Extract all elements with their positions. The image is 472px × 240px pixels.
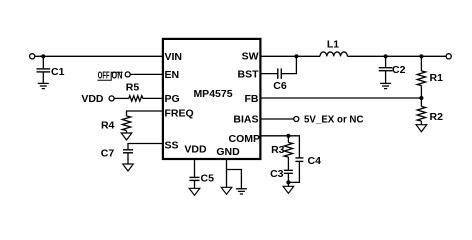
svg-text:R4: R4 <box>101 120 115 132</box>
svg-text:SW: SW <box>242 51 259 63</box>
svg-text:C7: C7 <box>101 148 115 160</box>
svg-text:R1: R1 <box>430 72 444 84</box>
svg-text:PG: PG <box>165 93 180 105</box>
svg-text:VDD: VDD <box>184 143 207 155</box>
svg-text:VDD: VDD <box>81 93 104 105</box>
svg-text:FREQ: FREQ <box>165 108 194 120</box>
svg-text:SS: SS <box>165 140 179 152</box>
svg-text:BIAS: BIAS <box>233 114 258 126</box>
svg-text:R5: R5 <box>126 82 140 94</box>
svg-text:BST: BST <box>238 68 260 80</box>
svg-text:C6: C6 <box>273 80 287 92</box>
svg-text:ON: ON <box>112 70 123 82</box>
svg-text:VIN: VIN <box>165 51 183 63</box>
svg-text:R3: R3 <box>271 144 285 156</box>
svg-text:GND: GND <box>216 146 240 158</box>
svg-text:C1: C1 <box>51 66 65 78</box>
svg-text:5V_EX or NC: 5V_EX or NC <box>304 114 364 126</box>
svg-text:C3: C3 <box>270 168 284 180</box>
svg-text:C5: C5 <box>201 173 215 185</box>
svg-text:L1: L1 <box>327 38 339 50</box>
svg-text:COMP: COMP <box>229 133 261 145</box>
svg-text:FB: FB <box>245 93 259 105</box>
svg-text:C4: C4 <box>308 155 322 167</box>
svg-text:R2: R2 <box>430 111 444 123</box>
svg-text:C2: C2 <box>392 64 406 76</box>
svg-text:MP4575: MP4575 <box>193 88 232 100</box>
svg-text:EN: EN <box>165 69 180 81</box>
